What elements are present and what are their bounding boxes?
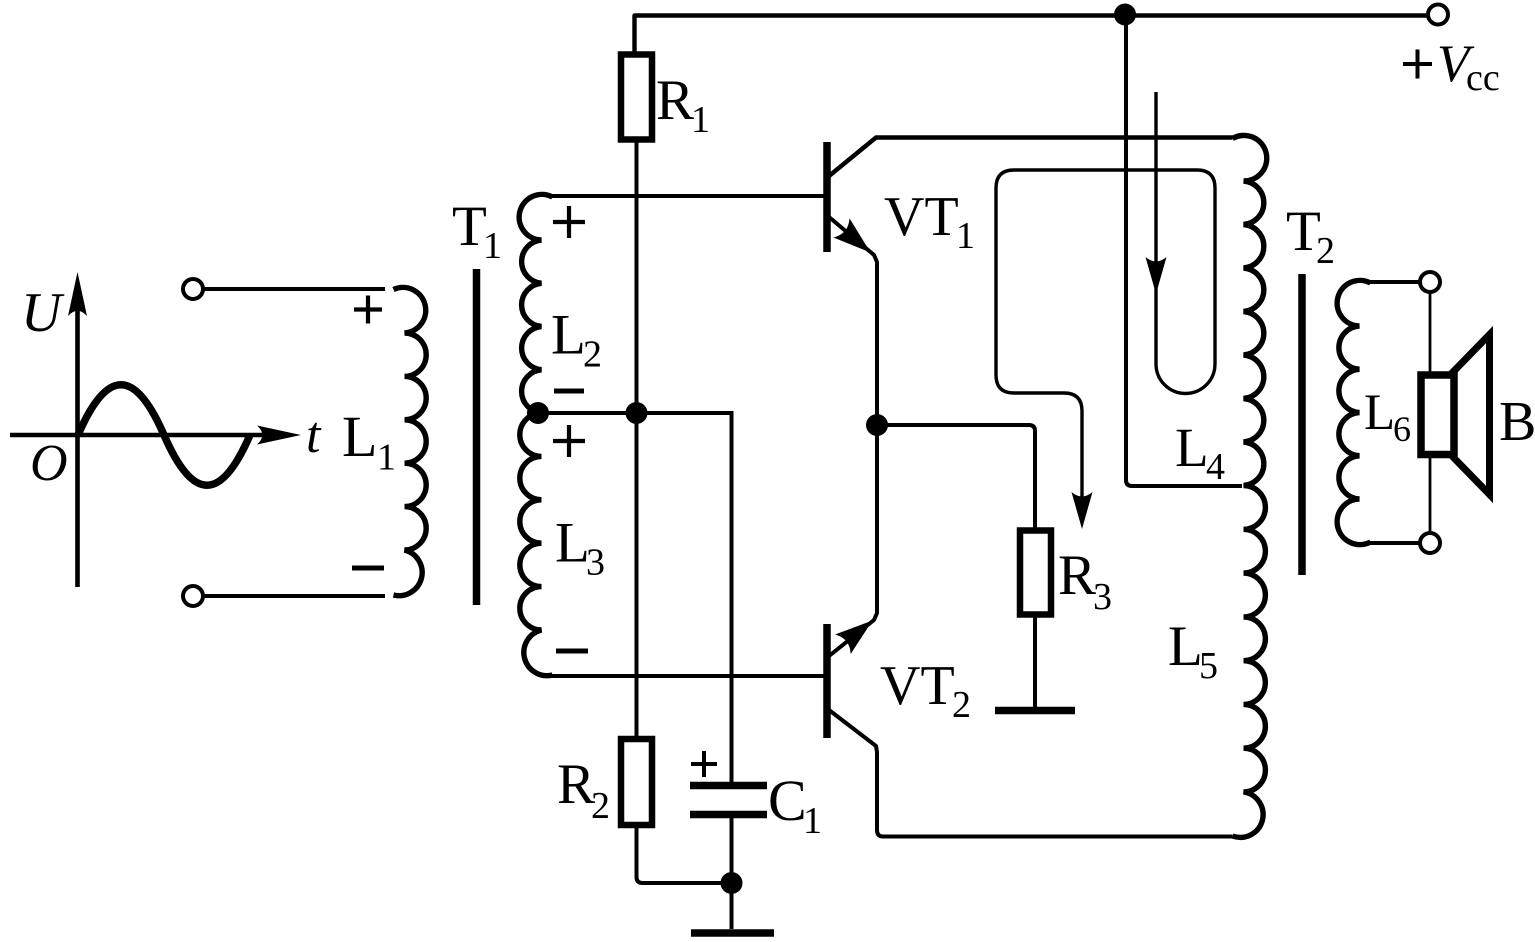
svg-text:T: T [452,195,487,258]
label minus L1 bottom [352,566,384,571]
wire VT2 collector to L5 [829,710,1233,837]
wire VT2 base [551,674,824,678]
transformer T2 core [1298,274,1306,575]
svg-text:1: 1 [956,215,975,257]
speaker B horn [1452,335,1490,495]
label minus L2 bottom [554,389,584,394]
svg-text:2: 2 [1316,230,1335,272]
transistor VT1 emitter lead [829,217,877,425]
wire T1 center tap [541,411,732,415]
svg-text:R: R [557,753,595,816]
speaker B driver box [1421,375,1454,455]
svg-text:R: R [1058,544,1096,607]
svg-text:L: L [555,512,590,575]
transformer T1 core [473,269,481,605]
svg-text:3: 3 [1093,576,1112,618]
label plus L1 top [354,296,382,324]
terminal speaker bottom [1420,533,1440,553]
transistor VT2 base bar [823,624,831,738]
transistor VT1 base bar [823,142,831,252]
svg-text:L: L [1364,385,1395,441]
winding L1 [394,287,427,595]
current loop arrow end [1072,492,1093,529]
wire speaker vertical [1429,292,1432,533]
svg-text:L: L [1168,615,1203,678]
wire tap down to C1 [730,411,734,782]
current loop arrow mid [1146,257,1167,294]
wire Vcc down to T2 center tap [1126,16,1242,486]
wire top supply rail [635,16,1438,56]
node supply dot [1114,4,1136,26]
wire VT1 base [551,194,824,198]
svg-text:5: 5 [1199,645,1218,687]
wire L6 top [1369,280,1420,284]
wire VT1 collector to L4 [829,138,1233,177]
svg-text:t: t [306,407,322,464]
winding L6 [1337,280,1370,544]
wire emitters to R3 [877,425,1035,530]
svg-text:cc: cc [1466,57,1500,99]
capacitor C1 plate bottom [690,811,767,819]
svg-text:2: 2 [583,334,602,376]
wire input top [203,287,385,291]
svg-text:B: B [1499,391,1535,453]
transistor VT2 emitter lead [829,425,877,656]
resistor R3 [1020,531,1051,615]
svg-text:L: L [342,404,377,469]
label plus L3 top [553,425,585,457]
wire R1 bottom through tap to R2 [635,141,639,738]
wire input bottom [203,594,385,598]
input terminal top [183,279,203,299]
svg-text:3: 3 [586,542,605,584]
capacitor C1 plate top [690,782,767,790]
wire C1 bottom to ground [730,818,734,929]
svg-text:R: R [656,69,694,132]
input sine wave [78,385,250,486]
svg-text:1: 1 [803,800,822,842]
t axis horizontal [10,433,288,438]
svg-text:L: L [1175,417,1209,478]
svg-text:4: 4 [1206,446,1225,488]
transistor VT1 emitter arrow [833,218,878,262]
svg-text:1: 1 [377,437,396,479]
ground of R3 [995,707,1075,715]
node tap dot [527,402,549,424]
node bias dot [626,402,648,424]
wire L6 bottom [1369,541,1420,545]
label minus L3 bottom [556,649,588,654]
wire R2 bottom [637,826,732,883]
svg-text:VT: VT [884,186,959,248]
svg-text:6: 6 [1393,409,1411,449]
winding L2 and L3 [519,194,552,675]
label +Vcc [1403,50,1432,79]
ground bottom [691,929,774,937]
svg-text:O: O [30,435,68,492]
svg-text:1: 1 [483,225,502,267]
wire R3 to ground [1033,615,1037,707]
U axis vertical [75,288,80,587]
svg-text:U: U [21,282,65,344]
node ground junction dot [721,872,743,894]
label plus C1 [691,751,717,777]
winding L4 and L5 [1233,135,1267,837]
svg-text:C: C [768,768,807,833]
svg-text:VT: VT [880,655,955,717]
svg-text:L: L [551,304,586,367]
input terminal bottom [183,586,203,606]
transistor VT2 emitter arrow [835,611,880,654]
terminal speaker top [1420,272,1440,292]
resistor R2 [621,739,652,825]
svg-text:2: 2 [952,684,971,726]
resistor R1 [621,55,652,140]
terminal +Vcc [1428,5,1448,25]
current loop path [996,92,1215,516]
label plus L2 top [553,206,585,238]
svg-text:2: 2 [591,785,610,827]
node emitter junction dot [866,414,888,436]
svg-text:1: 1 [691,99,710,141]
